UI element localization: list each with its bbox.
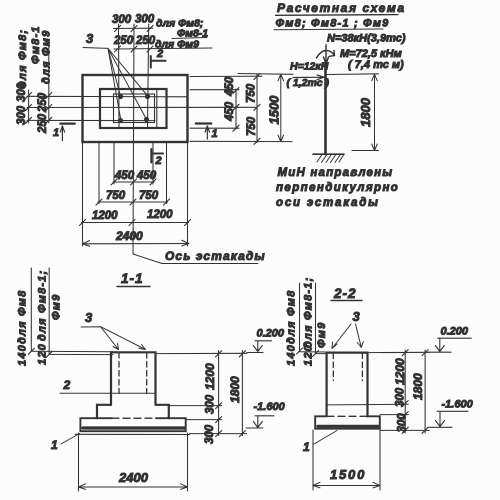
- extension below plan outer right: [187, 142, 189, 246]
- svg-text:750: 750: [139, 190, 159, 202]
- right ext top of column: [157, 352, 247, 354]
- pedestal middle rectangle 1500x900: [100, 89, 167, 128]
- right ext slab bottom: [190, 433, 247, 435]
- anchor bolt dashed right: [146, 353, 148, 394]
- left ticks col2: [46, 93, 52, 99]
- leader line to bolt TL: [108, 48, 120, 94]
- section mark 2 bottom: flag: [151, 149, 163, 163]
- label 3 leader: [81, 327, 119, 350]
- anchor bolt bottom-right: [144, 117, 149, 122]
- svg-text:450: 450: [114, 170, 135, 182]
- slab reinforcement band: [318, 425, 379, 428]
- svg-text:для Фм8-1;: для Фм8-1;: [303, 277, 315, 348]
- svg-text:2: 2: [63, 378, 71, 392]
- tick: [147, 26, 153, 32]
- svg-text:1: 1: [51, 438, 58, 452]
- svg-text:140: 140: [17, 344, 29, 366]
- extension below plan pedestal right: [166, 142, 168, 204]
- anchor bolt dashed right: [361, 353, 363, 381]
- svg-text:( 7,4 тс м): ( 7,4 тс м): [348, 59, 404, 71]
- svg-text:750: 750: [246, 116, 258, 136]
- moment M arc arrow: [317, 51, 335, 59]
- svg-text:3: 3: [86, 31, 94, 46]
- svg-text:1-1: 1-1: [121, 271, 144, 286]
- column of design scheme: [324, 63, 327, 154]
- label 2 leader: [60, 392, 155, 394]
- left dim vertical line col1: [28, 90, 30, 123]
- section mark 1 right: flag: [196, 122, 211, 124]
- bottom dim line 750+750: [98, 201, 168, 203]
- anchor bolt top-left: [118, 94, 123, 99]
- section mark 1 left: arrow: [60, 126, 64, 141]
- tick col2: [313, 351, 319, 357]
- label 3 leader second arrow: [101, 327, 146, 350]
- svg-text:1200: 1200: [147, 209, 173, 221]
- ground line: [313, 153, 344, 155]
- svg-text:1800: 1800: [411, 373, 425, 400]
- section mark 2 top: flag: [151, 56, 166, 68]
- right dim line 450+450: [235, 89, 237, 129]
- label 3 leader right arrow: [356, 324, 364, 348]
- svg-text:300: 300: [397, 413, 409, 433]
- svg-text:оси эстакады: оси эстакады: [276, 197, 380, 209]
- left caption line col2: [315, 283, 317, 354]
- bottom dim line 450+450: [113, 181, 154, 183]
- bolt column axis left: [118, 24, 121, 128]
- elevation mark 0.200 right: symbol: [428, 338, 471, 352]
- svg-text:3: 3: [85, 310, 93, 325]
- svg-text:300: 300: [204, 424, 216, 444]
- svg-text:140: 140: [286, 344, 298, 366]
- svg-text:Расчетная схема: Расчетная схема: [277, 1, 406, 15]
- left ticks col1: [26, 93, 32, 99]
- svg-text:750: 750: [246, 83, 258, 103]
- bottom extension right: [379, 430, 381, 490]
- bottom extension left: [78, 433, 80, 491]
- svg-text:1: 1: [53, 127, 59, 139]
- lean concrete line: [75, 433, 189, 435]
- svg-text:250: 250: [135, 35, 156, 47]
- svg-text:Фм9: Фм9: [316, 322, 328, 348]
- svg-text:Фм8; Фм8-1 ; Фм9: Фм8; Фм8-1 ; Фм9: [276, 18, 390, 30]
- slab top hidden dashed: [112, 417, 156, 419]
- svg-text:МиН направлены: МиН направлены: [278, 167, 394, 179]
- top dim line 300+300: [114, 27, 153, 29]
- top-of-column level line FM8: [300, 351, 328, 353]
- right ext slab top: [380, 414, 408, 416]
- force H arrow: [293, 75, 324, 80]
- svg-text:2-2: 2-2: [333, 286, 357, 301]
- svg-text:для Фм8;: для Фм8;: [17, 29, 29, 88]
- svg-text:1: 1: [212, 128, 218, 140]
- slab outline: [80, 418, 185, 431]
- right ext slab bottom: [380, 429, 429, 431]
- slab reinforcement band: [83, 426, 185, 429]
- column of section 2-2: [327, 353, 368, 417]
- bottom dim line 2400: [83, 243, 189, 245]
- ground level line across column: [327, 403, 409, 406]
- svg-text:1200: 1200: [203, 363, 217, 390]
- label 1 leader: [314, 431, 337, 445]
- svg-text:1800: 1800: [228, 376, 242, 403]
- svg-text:120: 120: [303, 344, 315, 366]
- svg-text:2400: 2400: [118, 470, 149, 485]
- svg-text:1800: 1800: [358, 97, 373, 127]
- right extension line pedestal top: [190, 89, 239, 91]
- svg-text:450: 450: [136, 170, 157, 182]
- svg-text:250: 250: [113, 35, 134, 47]
- svg-text:0.200: 0.200: [441, 326, 469, 338]
- svg-text:1500: 1500: [266, 95, 281, 125]
- tick col1: [28, 348, 34, 354]
- bolt column axis right: [148, 24, 149, 128]
- extension below plan inner left: [113, 142, 115, 184]
- slab outline: [315, 416, 380, 428]
- dim 1500 line: [278, 74, 284, 141]
- anchor bolt top-right: [145, 94, 150, 99]
- dim 1800 line: [372, 74, 378, 150]
- svg-text:300: 300: [16, 105, 28, 125]
- svg-text:300: 300: [395, 387, 407, 407]
- svg-text:450: 450: [224, 76, 236, 97]
- svg-text:3: 3: [353, 309, 361, 324]
- outer foundation slab rectangle 2400x1500: [83, 75, 188, 142]
- tick: [147, 46, 153, 52]
- svg-text:2400: 2400: [115, 229, 143, 243]
- section mark 1 left: flag: [60, 122, 74, 124]
- horizontal centerline of plan: [27, 106, 256, 108]
- right extension line outer top: [190, 75, 262, 77]
- svg-text:120: 120: [37, 343, 49, 365]
- leader line to bolt BR: [108, 48, 146, 117]
- dim 1800: top extension: [327, 73, 379, 76]
- underline of FM8-1: [172, 38, 207, 39]
- left dim vertical line col2: [48, 42, 50, 123]
- ground hatching: [317, 155, 344, 163]
- step left: [97, 405, 111, 418]
- svg-text:Фм9: Фм9: [51, 294, 63, 320]
- top-of-column level line FM9: [316, 353, 328, 355]
- leader line to bolt TR: [108, 48, 147, 94]
- svg-text:300: 300: [205, 394, 217, 414]
- top dim line 250+250 extended under caption: [114, 48, 212, 49]
- svg-text:450: 450: [224, 101, 236, 122]
- svg-text:300: 300: [135, 14, 155, 26]
- right extension line outer bottom: [190, 140, 292, 142]
- svg-text:для Фм8: для Фм8: [286, 290, 298, 344]
- svg-text:N=38кН(3,9тс): N=38кН(3,9тс): [327, 33, 406, 45]
- svg-text:1200: 1200: [92, 210, 118, 222]
- right dim line 750+750: [256, 74, 258, 143]
- svg-text:2: 2: [156, 48, 163, 60]
- elevation mark -1.600 left: symbol: [246, 416, 274, 428]
- svg-text:250: 250: [37, 92, 49, 113]
- svg-text:-1.600: -1.600: [442, 399, 474, 411]
- bottom dim line 1500: [313, 482, 380, 488]
- svg-text:750: 750: [106, 190, 126, 202]
- svg-text:1: 1: [303, 440, 310, 454]
- anchor bolt dashed left: [332, 353, 334, 381]
- top-of-column level line FM9: [49, 353, 113, 355]
- right ext step level: [170, 405, 222, 407]
- title underline: [276, 14, 399, 17]
- label 3 leader left arrow: [332, 324, 351, 349]
- bottom extension left: [312, 430, 314, 490]
- anchor bolt bottom-left: [118, 118, 123, 123]
- axis label underline: [162, 263, 258, 265]
- right dim line B: [241, 351, 243, 436]
- force N arrow: [324, 45, 329, 64]
- svg-text:для Фм9: для Фм9: [41, 30, 53, 84]
- dim 1500: top extension at H level: [238, 73, 293, 76]
- tick col1: [297, 348, 303, 354]
- extension below plan pedestal left: [98, 142, 100, 204]
- right ext top of column: [369, 351, 429, 353]
- step right: [156, 405, 169, 418]
- anchor plate inner rectangle: [114, 94, 155, 123]
- svg-text:Ось эстакады: Ось эстакады: [165, 249, 266, 263]
- bolt row axis bottom: [27, 119, 155, 121]
- bottom extension right: [187, 433, 189, 491]
- bolt row axis top: [27, 95, 187, 98]
- left caption line col1: [299, 283, 301, 351]
- svg-text:0.200: 0.200: [257, 328, 285, 340]
- title underline: [117, 286, 150, 288]
- svg-text:-1.600: -1.600: [254, 401, 286, 413]
- svg-text:Фм8-1: Фм8-1: [30, 25, 42, 64]
- tick: [131, 26, 137, 32]
- dim 1800: bottom extension: [352, 150, 379, 152]
- right extension line pedestal bottom: [190, 127, 239, 129]
- svg-text:1500: 1500: [330, 467, 366, 482]
- bottom dim line 2400: [79, 484, 188, 490]
- title underline: [331, 300, 362, 302]
- svg-text:250: 250: [37, 113, 49, 134]
- extension below plan inner right: [152, 142, 154, 184]
- label 3 leader underline: [83, 47, 108, 50]
- svg-text:для Фм8: для Фм8: [17, 290, 29, 344]
- svg-text:перпендикулярно: перпендикулярно: [276, 182, 399, 194]
- section mark 1 right: arrow: [205, 126, 209, 139]
- socket wall line: [156, 90, 158, 128]
- tick: [115, 26, 121, 32]
- subtitle underline: [274, 28, 383, 31]
- top-of-column level line FM8: [31, 350, 113, 353]
- axis leader bend: [133, 245, 162, 264]
- elevation mark -1.600 right: symbol: [429, 411, 468, 427]
- anchor bolt dashed left: [118, 353, 120, 394]
- tick: [115, 46, 121, 52]
- right ext slab top: [186, 419, 222, 421]
- vertical centerline of plan down to axis label: [133, 24, 134, 254]
- bottom dim line 1200+1200: [82, 222, 189, 224]
- left caption line col2: [48, 268, 50, 354]
- svg-text:2: 2: [155, 155, 162, 167]
- label 1 leader: [61, 434, 80, 445]
- svg-text:H=12кН: H=12кН: [290, 61, 329, 73]
- tick col2: [46, 351, 52, 357]
- extension below plan outer left: [82, 142, 84, 246]
- slab top hidden dashed: [327, 415, 367, 417]
- svg-text:300: 300: [112, 14, 132, 26]
- tick: [131, 46, 137, 52]
- column of section 1-1: [111, 352, 156, 405]
- right dim line A: [218, 351, 220, 436]
- svg-text:( 1,2тс ): ( 1,2тс ): [287, 77, 330, 89]
- right dim line B: [424, 350, 426, 433]
- left caption line col1: [30, 268, 32, 351]
- elevation mark 0.200 left: symbol: [247, 341, 272, 353]
- svg-text:1200: 1200: [393, 358, 407, 385]
- right dim line A: [404, 350, 406, 433]
- svg-text:для Фм8-1;: для Фм8-1;: [37, 270, 49, 341]
- leader line to bolt BL: [108, 48, 121, 118]
